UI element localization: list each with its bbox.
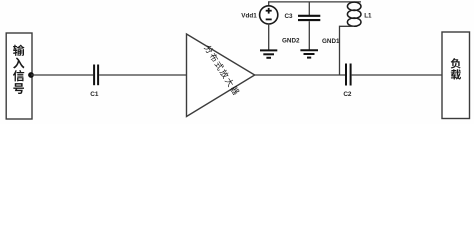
wire op-amp to C2	[255, 74, 346, 76]
wire Vdd1 to ground	[268, 24, 270, 50]
wire C1 to op-amp	[99, 74, 186, 76]
ground (below C3)	[300, 50, 318, 57]
input box 输入信号	[6, 33, 32, 119]
svg-text:C2: C2	[343, 91, 352, 98]
ground (below Vdd1)	[260, 50, 277, 57]
svg-text:L1: L1	[364, 12, 372, 19]
svg-text:GND1: GND1	[322, 38, 340, 45]
svg-text:C1: C1	[90, 91, 99, 98]
svg-text:Vdd1: Vdd1	[241, 12, 257, 19]
svg-text:GND2: GND2	[282, 38, 300, 45]
wire C2 to load	[352, 74, 442, 76]
op-amp U1 (distributed amplifier 分布式放大器)	[187, 34, 255, 117]
capacitor C2	[343, 64, 352, 99]
power source Vdd1	[241, 2, 278, 24]
inductor L1	[347, 2, 372, 26]
svg-text:C3: C3	[285, 13, 294, 20]
node A (junction dot at input box)	[28, 72, 34, 78]
wire L1 to output node	[340, 26, 355, 75]
top rail wire Vdd1/C3/L1	[268, 1, 361, 3]
wire input box to C1	[31, 74, 93, 76]
capacitor C3	[285, 2, 321, 50]
load box 负载	[442, 32, 470, 119]
capacitor C1	[90, 65, 99, 99]
